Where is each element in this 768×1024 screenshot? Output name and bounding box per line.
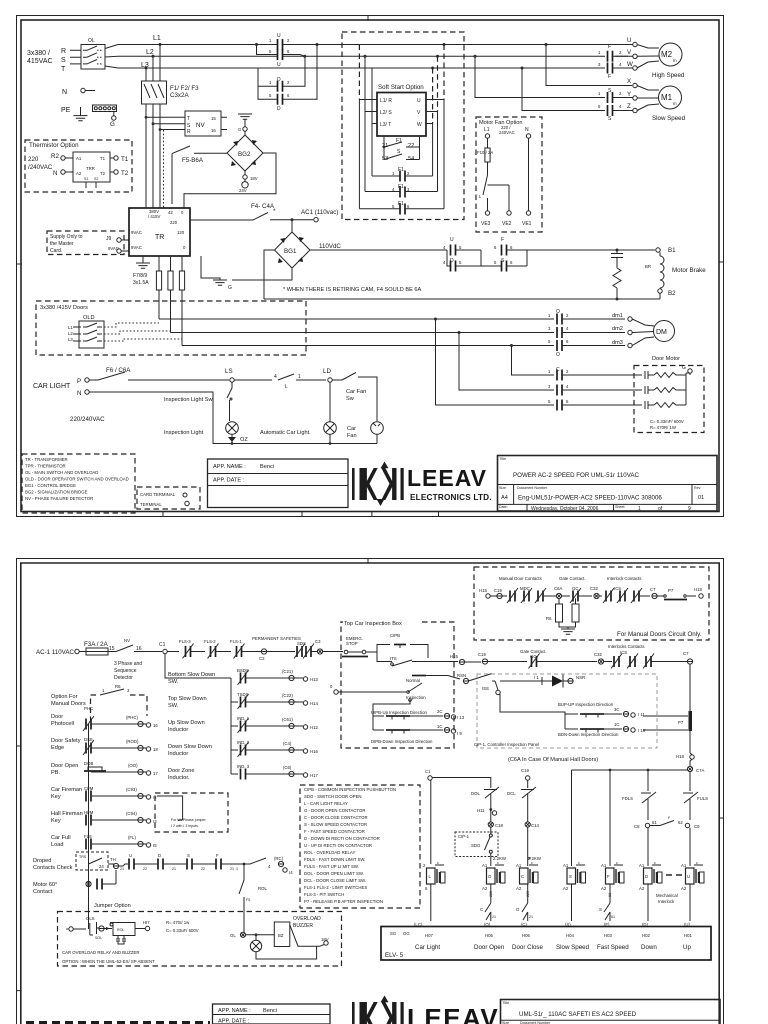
svg-text:17: 17 <box>153 771 158 776</box>
svg-text:4: 4 <box>268 864 271 869</box>
svg-text:U: U <box>687 874 690 879</box>
svg-text:0: 0 <box>181 210 184 215</box>
svg-text:F7/8/9: F7/8/9 <box>133 273 147 279</box>
svg-text:DM: DM <box>656 329 667 336</box>
svg-text:DCL - DOOR CLOSE LIMIT SW.: DCL - DOOR CLOSE LIMIT SW. <box>304 878 366 883</box>
svg-text:1: 1 <box>298 374 301 380</box>
svg-text:Key: Key <box>51 818 61 824</box>
svg-text:T: T <box>61 66 66 73</box>
svg-text:110VdC: 110VdC <box>319 243 341 250</box>
svg-text:S: S <box>608 116 612 122</box>
bypass contact F1 1-2 <box>372 167 433 182</box>
svg-text:OG: OG <box>403 931 410 936</box>
svg-text:dm3: dm3 <box>612 340 623 346</box>
svg-text:I5: I5 <box>153 843 157 848</box>
node L1 <box>153 35 162 81</box>
svg-text:A1: A1 <box>76 156 82 161</box>
up slow down inductor IND.1 <box>168 716 318 733</box>
svg-text:9VAC: 9VAC <box>131 230 142 235</box>
motor M2 <box>652 43 685 79</box>
svg-text:16: 16 <box>211 128 216 133</box>
svg-text:C6A: C6A <box>554 586 562 591</box>
svg-text:C= 0.33mF/ 600V: C= 0.33mF/ 600V <box>650 419 684 424</box>
svg-text:O: O <box>488 874 492 879</box>
svg-text:O - DOOR OPEN CONTACTOR: O - DOOR OPEN CONTACTOR <box>304 808 365 813</box>
svg-text:APP. DATE :: APP. DATE : <box>218 1019 250 1024</box>
svg-text:H17: H17 <box>310 773 318 778</box>
svg-text:2C: 2C <box>437 709 443 714</box>
svg-text:NV: NV <box>196 122 205 129</box>
page 1 sheet <box>17 16 724 518</box>
svg-text:22: 22 <box>143 867 147 871</box>
svg-text:Photocell: Photocell <box>51 721 74 727</box>
svg-text:POWER AC-2 SPEED FOR UML-51r 1: POWER AC-2 SPEED FOR UML-51r 110VAC <box>513 472 639 479</box>
contactor F contacts (to M2) <box>598 44 622 80</box>
svg-text:X: X <box>627 78 631 85</box>
manual doors box titles <box>499 576 641 581</box>
svg-text:6: 6 <box>566 399 569 404</box>
svg-text:a: a <box>66 927 68 931</box>
abbreviations legend box page2 <box>300 785 420 908</box>
svg-text:5: 5 <box>494 260 497 265</box>
svg-text:Option For: Option For <box>51 694 78 700</box>
switch ISS <box>482 681 500 695</box>
svg-text:2: 2 <box>566 369 569 374</box>
svg-text:Document Number: Document Number <box>517 486 548 490</box>
svg-text:Up Slow Down: Up Slow Down <box>168 720 205 726</box>
brake RC snubber branch <box>611 249 623 300</box>
wire C7 down to H18 <box>689 664 691 753</box>
svg-text:C1: C1 <box>425 769 431 774</box>
soft start bypass contacts F1 21/22 53/54 <box>382 136 420 162</box>
svg-text:For Uk Please jumper: For Uk Please jumper <box>171 818 207 822</box>
svg-text:Slow Speed: Slow Speed <box>652 115 686 122</box>
svg-text:4: 4 <box>443 260 446 265</box>
contactor coil U <box>681 861 704 921</box>
contactor coil O <box>482 861 505 897</box>
svg-text:BR: BR <box>645 264 651 269</box>
selector normal/inspection <box>330 676 460 702</box>
soft start wiring right <box>426 45 444 209</box>
svg-text:18: 18 <box>153 747 158 752</box>
svg-text:c: c <box>616 861 618 865</box>
svg-text:W: W <box>627 61 633 68</box>
svg-text:H18: H18 <box>694 587 702 592</box>
svg-text:ELECTRONICS LTD.: ELECTRONICS LTD. <box>410 493 492 502</box>
svg-text:DCL: DCL <box>507 791 516 796</box>
svg-text:Door Zone: Door Zone <box>168 768 194 774</box>
door operator switch OLD <box>68 315 104 348</box>
legend dashed box page1 <box>22 454 135 513</box>
overload option dashed box <box>58 912 342 967</box>
svg-text:Car Fireman: Car Fireman <box>51 787 82 793</box>
manual doors row H15 C19 <box>479 588 507 599</box>
svg-text:N: N <box>525 127 529 133</box>
left feed bus page2 <box>88 724 90 929</box>
svg-text:C18: C18 <box>495 823 503 828</box>
terminal C32 manual <box>590 586 602 599</box>
svg-text:1: 1 <box>102 688 105 693</box>
svg-text:R2: R2 <box>51 153 59 160</box>
svg-text:SW.: SW. <box>168 679 179 685</box>
svg-text:H12: H12 <box>310 725 318 730</box>
BG2 return wire to TR <box>184 153 276 208</box>
svg-text:FULS - FAST UP LI MIT SW.: FULS - FAST UP LI MIT SW. <box>304 864 359 869</box>
svg-text:ROL: ROL <box>258 886 267 891</box>
coil O power rating <box>493 856 507 861</box>
svg-text:0: 0 <box>183 245 186 250</box>
svg-text:G: G <box>682 365 686 371</box>
svg-text:S: S <box>569 874 572 879</box>
svg-text:UML-51r_ 110AC SAFETI ES AC: UML-51r_ 110AC SAFETI ES AC2 SPEED <box>519 1011 637 1018</box>
svg-text:P7: P7 <box>678 720 684 725</box>
svg-text:G: G <box>228 285 232 291</box>
terminal C7 manual <box>650 587 662 599</box>
svg-text:SDO - SWITCH DOOR OPEN: SDO - SWITCH DOOR OPEN <box>304 794 362 799</box>
svg-text:F1: F1 <box>398 167 404 173</box>
svg-text:F: F <box>668 816 671 820</box>
wire R bus <box>105 43 628 49</box>
svg-text:C19: C19 <box>478 652 486 657</box>
svg-text:m: m <box>673 101 677 106</box>
svg-text:P7 - RELEASE P.B AFTER INSPECT: P7 - RELEASE P.B AFTER INSPECTION <box>304 899 383 904</box>
terminal H15 row2 <box>450 654 481 665</box>
svg-text:Hall Fireman: Hall Fireman <box>51 811 83 817</box>
svg-text:6: 6 <box>510 245 513 250</box>
svg-text:H14: H14 <box>310 701 318 706</box>
brake line contactor F contact <box>494 237 513 256</box>
svg-text:A1: A1 <box>563 863 569 868</box>
svg-text:OL: OL <box>88 38 95 44</box>
wire S bus <box>105 55 628 58</box>
svg-text:C7: C7 <box>683 651 689 656</box>
svg-text:Sequence: Sequence <box>114 668 137 674</box>
contactor coil C <box>516 861 538 897</box>
wire X line <box>546 45 632 86</box>
svg-text:Inspection: Inspection <box>406 695 426 700</box>
automatic car light lamp <box>260 382 336 436</box>
svg-text:4: 4 <box>619 62 622 67</box>
svg-text:Door Open: Door Open <box>51 763 78 769</box>
bottom dc rail <box>264 298 660 301</box>
svg-text:R6: R6 <box>115 684 121 689</box>
title block page1 <box>498 456 718 513</box>
svg-text:F: F <box>608 44 611 50</box>
svg-text:U - UP DI RECTI ON CONTACTOR: U - UP DI RECTI ON CONTACTOR <box>304 843 372 848</box>
svg-text:A2: A2 <box>681 886 687 891</box>
svg-text:(C6A In Case Of Manual Hall Do: (C6A In Case Of Manual Hall Doors) <box>508 757 598 763</box>
svg-text:Z: Z <box>627 103 631 110</box>
car light label <box>33 383 71 390</box>
svg-text:H04: H04 <box>566 933 574 938</box>
page1 inner border <box>21 20 719 512</box>
svg-text:N: N <box>62 89 67 96</box>
svg-text:A2: A2 <box>516 886 522 891</box>
down slow down inductor IND.2 <box>168 740 318 757</box>
svg-text:I4: I4 <box>289 870 293 875</box>
option for manual doors jumper <box>51 684 147 722</box>
inspection light OZ <box>164 422 248 443</box>
svg-text:Manual Door Contacts: Manual Door Contacts <box>499 576 542 581</box>
svg-text:Door Open: Door Open <box>474 944 505 951</box>
svg-text:dm2: dm2 <box>612 326 623 332</box>
svg-text:FDLS: FDLS <box>622 796 633 801</box>
card terminal dashed box <box>137 487 200 509</box>
overload relay ROL box <box>113 923 145 945</box>
svg-text:OLD: OLD <box>83 315 95 321</box>
svg-text:C1: C1 <box>159 642 166 648</box>
phase failure detector NV <box>145 111 227 136</box>
terminal H18 manual <box>694 587 703 598</box>
svg-text:M2: M2 <box>661 50 673 59</box>
svg-text:16: 16 <box>153 723 158 728</box>
door photocell PHC <box>51 706 158 731</box>
J9 terminals <box>106 236 129 253</box>
svg-text:VE1: VE1 <box>522 221 532 227</box>
terminal C6A <box>554 586 570 599</box>
svg-text:VE3: VE3 <box>481 221 491 227</box>
svg-text:c: c <box>531 861 533 865</box>
svg-text:(RC): (RC) <box>274 856 284 861</box>
page1 border ticks <box>17 16 724 518</box>
svg-text:U: U <box>277 62 281 68</box>
svg-text:A1: A1 <box>601 863 607 868</box>
svg-text:Load: Load <box>51 842 63 848</box>
svg-text:9VAC: 9VAC <box>108 246 119 251</box>
svg-text:L: L <box>479 194 482 199</box>
svg-text:BG1 - CONTROL BRIDGE: BG1 - CONTROL BRIDGE <box>25 483 76 488</box>
svg-text:c: c <box>437 861 439 865</box>
brake terminal B2 <box>658 289 676 299</box>
svg-text:F1: F1 <box>398 184 404 190</box>
svg-text:BZ: BZ <box>278 933 284 938</box>
svg-text:Date:: Date: <box>499 505 508 509</box>
svg-text:2: 2 <box>619 50 622 55</box>
svg-text:Motor Brake: Motor Brake <box>672 267 706 274</box>
svg-text:H13: H13 <box>310 677 318 682</box>
svg-text:G: G <box>110 121 115 128</box>
svg-text:L1: L1 <box>68 325 73 330</box>
svg-text:Sheet:: Sheet: <box>615 505 625 509</box>
svg-text:L2/ S: L2/ S <box>380 110 392 116</box>
svg-text:Top Slow Down: Top Slow Down <box>168 696 207 702</box>
contactor U contacts (top) <box>257 33 305 68</box>
svg-text:L1: L1 <box>153 35 161 42</box>
svg-text:Normal: Normal <box>406 678 420 683</box>
svg-text:1: 1 <box>598 91 601 96</box>
svg-text:Sw: Sw <box>346 396 355 402</box>
svg-text:1C: 1C <box>437 724 443 729</box>
svg-text:Title: Title <box>500 457 507 461</box>
svg-text:Door Close: Door Close <box>512 944 544 951</box>
svg-text:ROL: ROL <box>117 928 124 932</box>
terminal C18 <box>488 822 503 834</box>
door safety edge DSE <box>51 737 158 755</box>
inspection direction buttons UIPB/DIPB <box>371 700 465 744</box>
svg-text:1: 1 <box>598 50 601 55</box>
svg-text:/ 415V: / 415V <box>148 214 161 219</box>
svg-text:ISS: ISS <box>482 686 489 691</box>
page2 border ticks <box>17 559 724 991</box>
svg-text:the Master: the Master <box>50 241 74 247</box>
svg-text:P: P <box>77 378 81 385</box>
svg-text:DSE: DSE <box>84 737 93 742</box>
emergency stop contact <box>341 636 377 657</box>
fuse switch F5-B6A <box>172 146 227 204</box>
svg-text:OPTION : WHEN THE UML-52-EX/ S: OPTION : WHEN THE UML-52-EX/ SP ABSENT <box>62 959 155 964</box>
svg-text:Gate Contact.: Gate Contact. <box>559 576 586 581</box>
svg-text:3 Phase and: 3 Phase and <box>114 661 142 667</box>
BG1 left vertex return <box>264 250 275 299</box>
svg-text:24V: 24V <box>239 188 247 193</box>
bypass contact F1 5-6 <box>359 201 444 215</box>
svg-text:Door Motor: Door Motor <box>652 356 680 362</box>
svg-text:Soft Start Option: Soft Start Option <box>378 84 424 91</box>
doors option dashed box 3x380/415V <box>36 301 306 355</box>
terminal C1 lower <box>425 769 491 864</box>
svg-text:A1: A1 <box>482 863 488 868</box>
svg-text:U: U <box>277 33 281 39</box>
car fireman key CFM <box>51 786 157 802</box>
door motor DM <box>652 321 680 363</box>
svg-text:9VAC: 9VAC <box>131 245 142 250</box>
door motor phase wires <box>159 318 554 348</box>
limit switch FLS-3 <box>179 639 205 659</box>
svg-text:2: 2 <box>287 38 290 43</box>
BG2 output terminals 18V 24V <box>239 171 258 193</box>
manual doors resistors to ground <box>546 598 579 634</box>
car fan switch <box>342 373 377 422</box>
svg-text:UIPB-Up Inspection Direction: UIPB-Up Inspection Direction <box>371 710 427 715</box>
svg-text:I 9: I 9 <box>457 731 462 736</box>
svg-text:Top Car Inspection Box: Top Car Inspection Box <box>344 621 402 627</box>
mechanical interlock dashes <box>656 875 682 904</box>
door contactor C contacts <box>436 319 635 411</box>
fuse F3A/2A <box>84 641 116 655</box>
svg-text:5: 5 <box>269 93 272 98</box>
interlock contacts ICS row2 <box>608 644 687 669</box>
svg-text:C8: C8 <box>634 824 640 829</box>
svg-text:PERMANENT SAFETIES: PERMANENT SAFETIES <box>252 636 301 641</box>
svg-text:SDO: SDO <box>471 843 481 848</box>
svg-text:6: 6 <box>566 339 569 344</box>
svg-text:L: L <box>429 874 432 879</box>
svg-text:F1/ F2/ F3: F1/ F2/ F3 <box>170 85 199 92</box>
svg-text:Car: Car <box>347 426 356 432</box>
svg-text:U: U <box>627 37 631 44</box>
svg-text:(C22): (C22) <box>282 693 293 698</box>
terminal C1 top <box>159 642 179 654</box>
svg-text:H05: H05 <box>485 933 493 938</box>
top bus to speed/direction coils <box>572 769 689 772</box>
svg-text:DIPB-Down Inspection Direction: DIPB-Down Inspection Direction <box>371 739 433 744</box>
svg-text:22: 22 <box>201 867 205 871</box>
node L3 <box>141 62 149 81</box>
svg-text:GC: GC <box>572 586 578 591</box>
svg-text:OLD - DOOR OPERATOR SWITCH AND: OLD - DOOR OPERATOR SWITCH AND OVERLOAD <box>25 477 129 482</box>
car light terminals P N <box>70 378 105 423</box>
svg-text:B2: B2 <box>668 290 676 297</box>
svg-text:S - SLOW SPEED CONTACTOR: S - SLOW SPEED CONTACTOR <box>304 822 367 827</box>
svg-text:LD: LD <box>323 368 331 375</box>
wires L1 L2 L3 down to TR <box>146 104 164 208</box>
svg-text:W: W <box>417 122 422 128</box>
svg-text:Inspection Light: Inspection Light <box>164 430 204 436</box>
motor M1 terminals X Y Z <box>613 78 660 113</box>
svg-text:ROL - OVERLOAD RELAY: ROL - OVERLOAD RELAY <box>304 850 355 855</box>
svg-text:CAR LIGHT: CAR LIGHT <box>33 383 71 390</box>
svg-text:01: 01 <box>698 495 704 501</box>
car full load FLS <box>51 834 157 850</box>
wire T bus <box>105 66 628 70</box>
svg-text:A1: A1 <box>516 863 522 868</box>
svg-text:(C94): (C94) <box>126 811 137 816</box>
thermistor circuit TRR <box>28 152 129 188</box>
svg-text:3: 3 <box>548 326 551 331</box>
logo text LEEAV <box>407 465 492 502</box>
svg-text:H01: H01 <box>684 933 692 938</box>
brake terminal B1 <box>656 247 676 254</box>
svg-text:1: 1 <box>269 80 272 85</box>
svg-text:c: c <box>654 861 656 865</box>
svg-text:FLS: FLS <box>84 834 92 839</box>
phase labels R S T <box>61 48 66 73</box>
svg-text:F: F <box>607 874 610 879</box>
contactor S contacts (to M1) <box>475 56 622 122</box>
terminal C7 row2 <box>683 651 693 664</box>
svg-text:C - DOOR CLOSE CONTACTOR: C - DOOR CLOSE CONTACTOR <box>304 815 368 820</box>
svg-text:CIP-1. Controller Inspection P: CIP-1. Controller Inspection Panel <box>474 742 539 747</box>
svg-text:1C: 1C <box>614 722 620 727</box>
svg-text:L - CAR LIGHT RELAY: L - CAR LIGHT RELAY <box>304 801 348 806</box>
svg-text:D: D <box>158 853 161 858</box>
limit switch FLS-2 <box>204 639 231 659</box>
door contactor O contacts <box>548 309 625 358</box>
top slow down switch TSDS <box>168 692 318 709</box>
svg-text:(C4): (C4) <box>283 741 292 746</box>
svg-text:HI7: HI7 <box>143 920 150 925</box>
svg-text:24: 24 <box>99 864 104 869</box>
terminal C3 <box>315 639 341 654</box>
svg-text:Mechanical: Mechanical <box>656 893 678 898</box>
svg-text:Inductor: Inductor <box>168 727 188 733</box>
svg-text:9: 9 <box>688 506 691 512</box>
contactor D contacts (top) <box>258 45 317 112</box>
svg-text:SOL: SOL <box>95 936 102 940</box>
svg-text:/240VAC: /240VAC <box>28 164 53 171</box>
signalization bridge BG2 <box>227 135 263 171</box>
svg-text:Benci: Benci <box>263 1008 277 1014</box>
svg-text:TRR: TRR <box>86 166 95 171</box>
svg-text:H03: H03 <box>604 933 612 938</box>
svg-text:Contact: Contact <box>33 889 53 895</box>
svg-text:Contacts Check: Contacts Check <box>33 865 73 871</box>
switch door open SDO box <box>455 832 498 866</box>
svg-text:M1: M1 <box>661 93 673 102</box>
dropped contacts TH row <box>108 853 293 875</box>
svg-text:FLS-1: FLS-1 <box>230 639 242 644</box>
svg-text:Key: Key <box>51 794 61 800</box>
supply only note box <box>47 231 124 255</box>
page2 outer border <box>17 559 724 1024</box>
inspection switch LS <box>225 368 272 382</box>
svg-text:Manual Doors: Manual Doors <box>51 701 86 707</box>
svg-text:21 .1: 21 .1 <box>230 867 238 871</box>
svg-text:F4- C4A: F4- C4A <box>251 203 275 210</box>
svg-text:C3x2A: C3x2A <box>170 92 189 99</box>
door zone inductor IND.3 <box>168 764 318 781</box>
inspection toggle ITS <box>377 652 458 666</box>
